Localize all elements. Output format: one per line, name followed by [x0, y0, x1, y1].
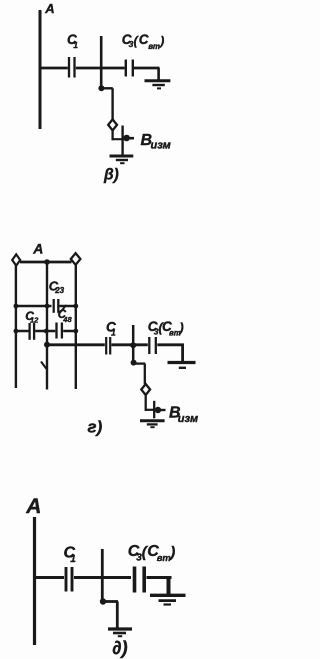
svg-text:∂): ∂) — [112, 637, 127, 658]
svg-text:β): β) — [103, 167, 119, 184]
svg-text:1: 1 — [73, 40, 78, 50]
svg-text:А: А — [32, 241, 43, 257]
svg-text:): ) — [168, 544, 175, 561]
svg-text:1: 1 — [70, 554, 76, 565]
svg-text:вт: вт — [148, 42, 160, 51]
svg-text:1: 1 — [111, 328, 116, 338]
svg-text:г): г) — [88, 418, 103, 437]
svg-text:А: А — [25, 495, 41, 518]
svg-text:изм: изм — [151, 140, 171, 152]
svg-text:изм: изм — [178, 413, 198, 425]
svg-text:48: 48 — [62, 315, 72, 324]
svg-text:вт: вт — [157, 553, 172, 564]
svg-text:12: 12 — [30, 316, 39, 325]
svg-text:А: А — [44, 1, 54, 16]
svg-text:23: 23 — [54, 286, 64, 295]
